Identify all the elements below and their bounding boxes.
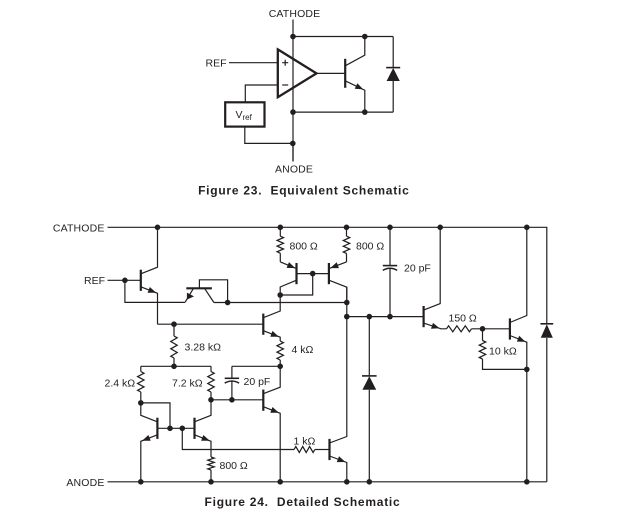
transistor Q9 emitter arrow (201, 435, 210, 441)
resistor R7 800 ohm bottom (208, 457, 214, 470)
transistor Q2 base-collector tie loop (199, 280, 227, 303)
transistor Q1 collector to cathode rail (141, 227, 158, 273)
node D3 bottom on anode rail (367, 479, 373, 485)
transistor Q2 lateral PNP base bar (horizontal) (186, 287, 212, 289)
svg-text:10 kΩ: 10 kΩ (489, 345, 517, 357)
svg-text:REF: REF (84, 275, 105, 287)
transistor Q2 collector diagonal (205, 288, 214, 302)
svg-text:1 kΩ: 1 kΩ (294, 435, 316, 447)
transistor Q8 collector (141, 403, 158, 422)
resistor R4 3.28 kohm (173, 324, 175, 336)
wire cathode top rail to diode (293, 36, 393, 38)
resistor R10 10 kohm (482, 329, 484, 341)
transistor Q8 emitter (141, 435, 158, 482)
node Q4 collector junction (344, 300, 350, 306)
wire REF branch down to lateral PNP Q2 emitter (125, 280, 185, 302)
wire cathode right edge below diode D2 (546, 338, 548, 482)
transistor Q2 emitter diagonal (185, 288, 193, 302)
svg-text:Figure 23. Equivalent Schemat: Figure 23. Equivalent Schematic (198, 184, 409, 198)
transistor Q8 base bar (mirrored) (156, 418, 158, 439)
wire cathode vertical through op-amp to anode (292, 37, 294, 162)
wire 2.4k bottom over to Q8 pair base (141, 403, 170, 428)
node Q7 emitter on anode rail (524, 479, 530, 485)
transistor Q1 collector (345, 37, 365, 66)
wire anode lead vertical (292, 143, 294, 161)
diode D3 symbol (362, 375, 377, 377)
transistor Q5 emitter arrow (270, 331, 279, 337)
wire anode rail (108, 481, 547, 483)
transistor Q1 base bar (344, 59, 346, 88)
node base tie right junction (180, 426, 186, 432)
wire 1k to Q10 base (315, 449, 330, 451)
node D3 top junction (367, 314, 373, 320)
transistor Q1 base bar (140, 270, 142, 291)
op-amp minus input marker (282, 84, 288, 86)
wire Q1 emitter to Q5 base (158, 323, 264, 325)
svg-text:20 pF: 20 pF (244, 376, 271, 388)
svg-text:800 Ω: 800 Ω (220, 460, 248, 472)
transistor Q4 base bar (328, 263, 330, 284)
resistor R8 1 kohm (294, 447, 315, 453)
node cathode junction (290, 34, 296, 40)
transistor Q6 emitter arrow (431, 323, 440, 329)
transistor Q11 emitter arrow (270, 407, 279, 413)
diode D3 leads (368, 317, 370, 482)
node 3.28k bottom junction (171, 364, 177, 370)
node compensation junction (344, 314, 350, 320)
transistor Q11 collector (263, 366, 280, 393)
wire cathode lead vertical (292, 20, 294, 37)
op-amp plus input marker (282, 60, 288, 66)
node C2 bottom junction (387, 314, 393, 320)
svg-text:ANODE: ANODE (66, 477, 104, 489)
wire Q3-Q4 base tie (297, 273, 329, 275)
wire op-amp minus input to Vref box (245, 85, 277, 102)
svg-text:ANODE: ANODE (275, 164, 313, 176)
transistor Q6 emitter (424, 323, 447, 329)
wire 7.2k bottom to Q11 base (211, 399, 263, 401)
transistor Q7 emitter arrow (517, 336, 526, 342)
node 4k bottom junction (277, 364, 283, 370)
svg-text:CATHODE: CATHODE (269, 8, 321, 20)
node Q1 collector on rail (155, 225, 161, 231)
transistor Q3 collector (280, 280, 296, 295)
svg-text:REF: REF (206, 57, 227, 69)
transistor Q5 collector (263, 295, 280, 318)
resistor R9 150 ohm (horizontal) (447, 326, 472, 332)
node Q7 collector on rail (524, 225, 530, 231)
node anode junction with Vref return (290, 141, 296, 147)
op-amp U1 triangle (278, 49, 317, 97)
transistor Q6 collector to cathode rail (424, 227, 441, 310)
node Q6 collector on rail (437, 225, 443, 231)
svg-text:CATHODE: CATHODE (53, 222, 105, 234)
transistor Q10 base bar (328, 439, 330, 460)
wire anode bottom rail (293, 111, 393, 113)
node Q3 collector / Q5 collector junction (277, 292, 283, 298)
capacitor C1 20 pF left (231, 366, 233, 378)
node base tie junction (310, 271, 316, 277)
transistor Q5 emitter (263, 331, 280, 341)
node REF junction (122, 278, 128, 284)
wire C1 top tie to 4k bottom (232, 365, 280, 367)
transistor Q11 emitter (263, 407, 280, 482)
node emitter junction bottom (362, 109, 368, 115)
svg-text:3.28 kΩ: 3.28 kΩ (185, 342, 222, 354)
node R7 bottom on anode rail (208, 479, 214, 485)
resistor R5 2.4 kohm (140, 366, 142, 371)
transistor Q11 base bar (262, 390, 264, 411)
wire base tie down to Q3 collector node (280, 274, 313, 295)
wire base tie down to 1k resistor (182, 428, 294, 449)
voltage source Vref box (225, 102, 264, 126)
wire REF to op-amp plus input (229, 62, 278, 64)
transistor Q2 emitter arrow (187, 293, 194, 300)
node 7.2k bottom junction (208, 397, 214, 403)
transistor Q1 emitter (141, 287, 158, 324)
svg-text:2.4 kΩ: 2.4 kΩ (105, 378, 136, 390)
wire op-amp output to Q1 base (317, 72, 346, 74)
resistor R2 800 ohm right (344, 225, 350, 231)
node 10k top junction (480, 326, 486, 332)
transistor Q7 collector to cathode rail (510, 227, 527, 322)
svg-text:7.2 kΩ: 7.2 kΩ (172, 378, 203, 390)
transistor Q3 emitter arrow (287, 262, 296, 268)
transistor Q8 emitter arrow (142, 435, 151, 441)
transistor Q1 emitter arrow (148, 287, 157, 293)
node 10k return on Q7 emitter line (524, 367, 530, 373)
diode D1 symbol (386, 67, 400, 69)
node Q11 emitter on anode rail (277, 479, 283, 485)
node 2.4k bottom junction (138, 400, 144, 406)
svg-text:4 kΩ: 4 kΩ (292, 344, 314, 356)
transistor Q10 emitter arrow (337, 456, 346, 462)
transistor Q7 emitter to anode rail (510, 336, 527, 482)
transistor Q6 base bar (423, 306, 425, 327)
resistor R6 7.2 kohm (210, 366, 212, 371)
diode D1 vertical leads (392, 37, 394, 113)
wire Q8-Q9 base tie (157, 427, 194, 429)
diode D2 symbol (right edge) (540, 323, 553, 325)
svg-text:800 Ω: 800 Ω (290, 241, 318, 253)
transistor Q4 emitter from R2 (329, 262, 347, 269)
transistor Q3 base bar (295, 263, 297, 284)
resistor R1 800 ohm left (278, 225, 284, 231)
wire Vref box bottom to anode line (245, 127, 293, 144)
node 3.28k top junction (171, 321, 177, 327)
transistor Q9 base bar (193, 418, 195, 439)
transistor Q1 emitter (345, 81, 365, 112)
transistor Q7 base bar (509, 318, 511, 339)
node Q8 emitter on anode rail (138, 479, 144, 485)
wire 150 ohm to Q7 base (472, 328, 510, 330)
node C1 bottom junction (229, 397, 235, 403)
svg-text:20 pF: 20 pF (404, 263, 431, 275)
transistor Q3 emitter from R1 (280, 262, 296, 269)
transistor Q4 emitter arrow (330, 262, 339, 268)
wire REF to Q1 base (108, 279, 141, 281)
svg-text:150 Ω: 150 Ω (449, 312, 477, 324)
transistor Q5 base bar (262, 314, 264, 335)
wire resistor top tie 2.4k-3.28k-7.2k (141, 365, 211, 367)
transistor Q9 collector (195, 400, 212, 422)
node collector junction top (362, 34, 368, 40)
node Q10 emitter on anode rail (344, 479, 350, 485)
svg-text:800 Ω: 800 Ω (356, 241, 384, 253)
node Q2 collector junction (225, 300, 231, 306)
transistor Q1 emitter arrow (355, 83, 364, 89)
transistor Q10 collector (long vertical to node) (330, 287, 347, 443)
transistor Q9 emitter (195, 435, 212, 457)
svg-text:Figure 24. Detailed Schematic: Figure 24. Detailed Schematic (205, 495, 401, 509)
wire node to Q6 base (347, 316, 424, 318)
node anode junction (290, 109, 296, 115)
resistor R3 4 kohm (277, 341, 283, 360)
wire cathode rail (108, 227, 547, 323)
node base tie left junction (167, 426, 173, 432)
capacitor C2 20 pF top (387, 225, 393, 231)
transistor Q10 emitter (330, 456, 347, 482)
wire Q2 collector to Q4 collector line (214, 302, 347, 304)
transistor Q4 collector (329, 280, 347, 302)
